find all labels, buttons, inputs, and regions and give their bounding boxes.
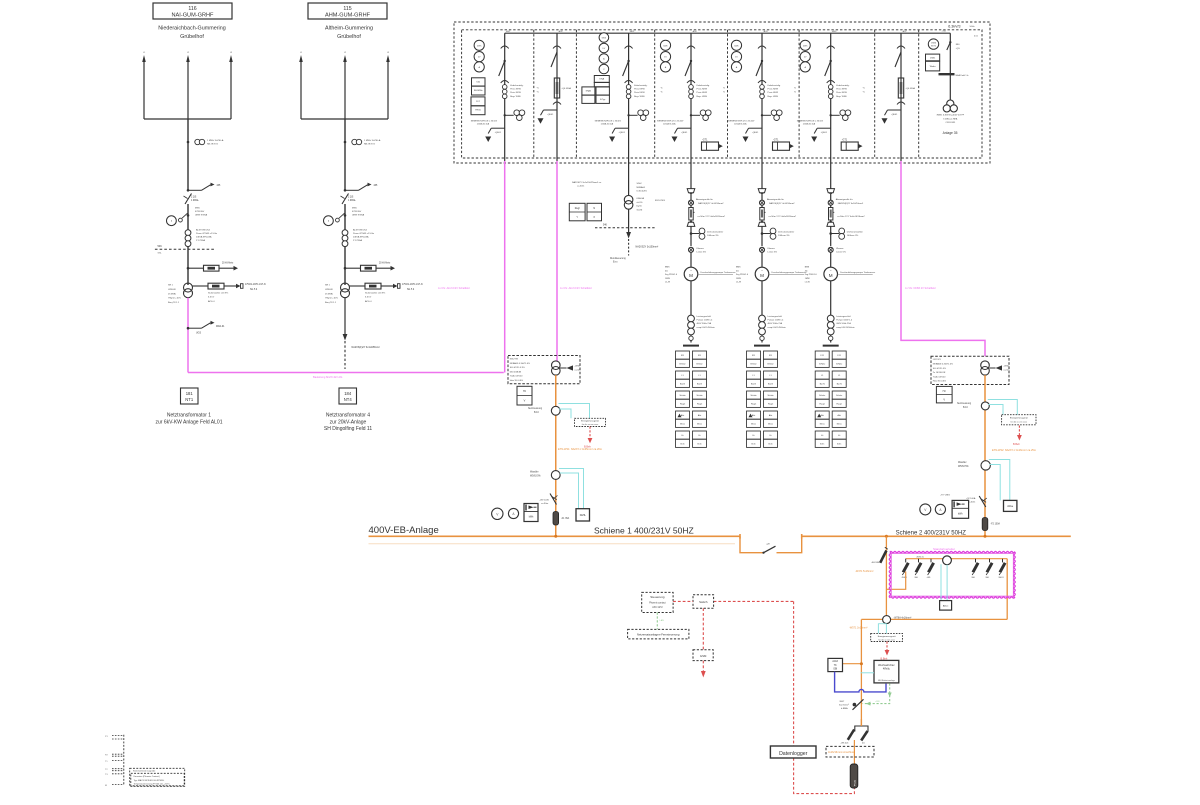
svg-text:APG 4: APG 4 [208, 300, 215, 303]
svg-text:B.rln: B.rln [680, 443, 684, 445]
svg-text:4x16/16mm²-Anschluss: 4x16/16mm²-Anschluss [828, 750, 856, 754]
svg-text:Netztransformator 4: Netztransformator 4 [326, 413, 370, 419]
svg-text:Bayr. WKE: Bayr. WKE [634, 95, 645, 98]
svg-text:W5/63 5%: W5/63 5% [958, 466, 969, 468]
svg-text:TLAL 04%20: TLAL 04%20 [933, 375, 946, 378]
svg-text:Schütz: Schütz [679, 394, 685, 397]
svg-text:Preis KEW: Preis KEW [634, 88, 646, 91]
svg-text:-Q0 630A: -Q0 630A [906, 87, 916, 90]
svg-text:6 kVA aus NEA: 6 kVA aus NEA [943, 117, 958, 120]
svg-text:%: % [537, 88, 539, 90]
svg-text:NKBA05 6.3kV/1.0%: NKBA05 6.3kV/1.0% [510, 362, 530, 365]
svg-text:Bar.N: Bar.N [768, 383, 774, 385]
svg-text:SG 5 b: SG 5 b [407, 289, 415, 291]
svg-text:B.Netz: B.Netz [819, 362, 825, 365]
svg-text:ca.50m YCY 4x6x16/16mm²: ca.50m YCY 4x6x16/16mm² [837, 215, 865, 218]
svg-text:6.3 kV: 6.3 kV [365, 297, 372, 299]
svg-text:Bayr. WKE: Bayr. WKE [836, 95, 847, 98]
svg-text:B.rln: B.rln [820, 443, 824, 445]
svg-text:3WN1 6.3kV/Vn=400V 0.8 PF: 3WN1 6.3kV/Vn=400V 0.8 PF [937, 115, 965, 117]
svg-text:Druckerhöhungspumpe Trinkwasse: Druckerhöhungspumpe Trinkwasser [840, 271, 875, 274]
svg-text:-W2 W1: -W2 W1 [933, 359, 942, 361]
svg-text:TLAL 04%20: TLAL 04%20 [510, 375, 523, 378]
svg-text:400V 50Hz 21A: 400V 50Hz 21A [836, 322, 851, 325]
svg-text:CSV5 B35: CSV5 B35 [945, 122, 956, 124]
svg-text:B.rln: B.rln [751, 443, 755, 445]
svg-text:Alst: Alst [681, 414, 685, 417]
svg-text:SLLM VD 6.3%: SLLM VD 6.3% [510, 367, 525, 369]
svg-text:Mess: Mess [768, 423, 773, 425]
svg-text:Wechselrichter: Wechselrichter [878, 664, 895, 667]
svg-text:NA2XS2Y 3x1x150/25mm² ca.: NA2XS2Y 3x1x150/25mm² ca. [572, 181, 602, 184]
svg-text:-Q2 100A: -Q2 100A [966, 497, 976, 500]
svg-text:P 17/80A: P 17/80A [196, 239, 206, 242]
svg-text:181: 181 [186, 391, 194, 396]
svg-text:1 ZRAL: 1 ZRAL [191, 199, 200, 202]
svg-text:Pmax 472kW ±1.5 Hz: Pmax 472kW ±1.5 Hz [196, 233, 217, 235]
svg-text:Mess: Mess [680, 423, 685, 425]
svg-text:-A06: -A06 [832, 30, 837, 33]
svg-text:%: % [723, 88, 725, 90]
svg-text:-GT1: -GT1 [702, 138, 708, 141]
svg-text:Schütz: Schütz [750, 394, 756, 397]
svg-text:Grübelhof: Grübelhof [337, 34, 361, 40]
svg-text:100kvar 3%: 100kvar 3% [778, 234, 790, 237]
svg-text:-W6 8: -W6 8 [998, 577, 1004, 579]
svg-text:24kVA SF6-63A: 24kVA SF6-63A [196, 236, 212, 239]
svg-text:B.Netz: B.Netz [836, 362, 842, 365]
svg-text:SIEMENS NXPLUS C 36.5kV: SIEMENS NXPLUS C 36.5kV [471, 120, 498, 122]
svg-text:B.10: B.10 [534, 412, 539, 414]
svg-text:Bauleitung 6kV/0.4kV Abt.: Bauleitung 6kV/0.4kV Abt. [313, 375, 343, 379]
svg-text:MAN-01: MAN-01 [216, 325, 225, 328]
svg-text:Stufensteller ±13 9%: Stufensteller ±13 9% [208, 292, 228, 295]
svg-text:Kabelverteilg.: Kabelverteilg. [836, 84, 850, 87]
svg-text:Schütz: Schütz [696, 394, 702, 397]
svg-text:P 17/80A: P 17/80A [353, 239, 363, 242]
svg-text:YRGe: YRGe [475, 110, 482, 112]
svg-text:-A05: -A05 [763, 30, 768, 33]
svg-text:Preis KEW: Preis KEW [836, 91, 848, 94]
svg-text:400V 50Hz 21A: 400V 50Hz 21A [697, 322, 712, 325]
svg-text:630 kVA 4B: 630 kVA 4B [510, 370, 522, 373]
svg-text:Klemm-: Klemm- [768, 248, 776, 250]
svg-text:GSM: GSM [700, 654, 707, 658]
svg-text:L1-W: L1-W [665, 282, 670, 284]
svg-text:1MW: 1MW [736, 278, 741, 280]
svg-text:MSS: MSS [195, 208, 200, 210]
svg-text:Anlage 35: Anlage 35 [943, 131, 958, 135]
svg-text:2x 16/16LVR: 2x 16/16LVR [933, 372, 946, 374]
svg-text:-A01: -A01 [506, 30, 511, 33]
svg-text:Schütz: Schütz [819, 394, 825, 397]
svg-text:M: M [689, 273, 693, 278]
svg-text:Netzersatzanlagen-Fernsteuerun: Netzersatzanlagen-Fernsteuerung [637, 633, 680, 637]
svg-text:Haupt: Haupt [751, 402, 757, 405]
svg-text:Leiste 5%: Leiste 5% [836, 251, 846, 254]
svg-text:Haupt: Haupt [820, 402, 826, 405]
svg-text:%: % [794, 92, 796, 94]
svg-text:-QE01: -QE01 [619, 132, 626, 134]
svg-text:B.Netz: B.Netz [750, 362, 756, 365]
svg-text:Pmax 472kW ±1.5 Hz: Pmax 472kW ±1.5 Hz [353, 233, 374, 235]
svg-text:-W6 1: -W6 1 [901, 577, 907, 579]
svg-text:Regl: Regl [575, 207, 580, 210]
svg-text:FEHL: FEHL [580, 514, 587, 517]
svg-text:1250A 31.5kA: 1250A 31.5kA [734, 123, 747, 126]
svg-text:B.Netz: B.Netz [767, 362, 773, 365]
svg-text:1250A 31.5kA: 1250A 31.5kA [477, 123, 490, 126]
svg-text:1250A 31.5kA: 1250A 31.5kA [601, 123, 614, 126]
svg-text:Drehstromzähler: Drehstromzähler [778, 231, 794, 234]
svg-text:Druckerhöhungspumpe Trinkwasse: Druckerhöhungspumpe Trinkwasser [701, 271, 736, 274]
svg-text:APG 4: APG 4 [365, 300, 372, 303]
svg-text:zu Chr.-Abt.6 F2V Schaltfeld: zu Chr.-Abt.6 F2V Schaltfeld [438, 287, 470, 290]
svg-text:1 MWh 1kV/6h A: 1 MWh 1kV/6h A [364, 139, 381, 142]
svg-text:Energiemessgerät: Energiemessgerät [581, 420, 599, 423]
svg-text:Preis KEW: Preis KEW [768, 88, 780, 91]
svg-text:4m: 4m [862, 743, 865, 745]
svg-text:uk 6%: uk 6% [637, 202, 643, 204]
svg-text:NA2XS(F)2Y 3x1x185mm²: NA2XS(F)2Y 3x1x185mm² [352, 346, 380, 349]
svg-text:-W40: -W40 [1004, 366, 1010, 368]
svg-text:Bar.N: Bar.N [697, 383, 703, 385]
svg-text:ALSTOM DS4: ALSTOM DS4 [196, 229, 211, 232]
svg-text:~: ~ [830, 269, 832, 273]
svg-text:Alst: Alst [752, 414, 756, 417]
svg-text:B.rln: B.rln [697, 443, 701, 445]
svg-text:NA2XS(F)2Y 4x16/16mm²: NA2XS(F)2Y 4x16/16mm² [838, 202, 864, 205]
svg-text:~: ~ [690, 269, 692, 273]
svg-text:2 QS: 2 QS [191, 197, 197, 199]
svg-text:Typ: MACX MCR-EX-SL-RPSSI-I: Typ: MACX MCR-EX-SL-RPSSI-I [134, 779, 165, 782]
svg-text:-W2 4x35: -W2 4x35 [540, 500, 550, 502]
svg-text:%: % [863, 88, 865, 90]
svg-text:SLLM VD 4%: SLLM VD 4% [933, 368, 946, 370]
svg-text:Dyn5: Dyn5 [637, 206, 643, 208]
svg-text:NB 29.9 kV: NB 29.9 kV [364, 144, 376, 146]
svg-text:-W471 5x16mm²: -W471 5x16mm² [855, 570, 874, 573]
svg-text:LRWLR: LRWLR [325, 289, 333, 291]
svg-text:Alst: Alst [769, 414, 773, 417]
svg-text:-GT1: -GT1 [773, 138, 779, 141]
svg-text:NT4: NT4 [344, 397, 353, 402]
svg-text:Rundsteuerung: Rundsteuerung [610, 257, 626, 260]
svg-text:Klemm-: Klemm- [697, 248, 705, 250]
svg-text:NB 29.9 kV: NB 29.9 kV [207, 144, 219, 146]
svg-text:-QE01: -QE01 [547, 114, 554, 116]
svg-text:Netzmessung: Netzmessung [957, 402, 972, 405]
svg-text:Switch: Switch [699, 600, 708, 604]
svg-text:MSS: MSS [352, 208, 357, 210]
svg-text:Preis KEW: Preis KEW [634, 91, 646, 94]
svg-text:-F2 100A: -F2 100A [991, 523, 1001, 526]
svg-text:UEW 9 MVA: UEW 9 MVA [195, 214, 208, 217]
svg-text:B.Netz: B.Netz [696, 362, 702, 365]
svg-text:Haupt: Haupt [697, 402, 703, 405]
svg-text:NA2XS2Y 3x150mm²: NA2XS2Y 3x150mm² [636, 246, 659, 249]
svg-text:SIEMENS NXPLUS C 36.5kV: SIEMENS NXPLUS C 36.5kV [657, 120, 684, 122]
svg-text:3x2.5mm²: 3x2.5mm² [839, 704, 849, 707]
svg-text:-W76 4x: -W76 4x [916, 556, 925, 558]
svg-text:LAN: LAN [660, 619, 665, 622]
svg-text:Wandler: Wandler [530, 471, 539, 474]
svg-text:PV-An: PV-An [854, 779, 857, 786]
svg-text:TK: TK [834, 665, 837, 667]
svg-text:Abzweigmuffe für: Abzweigmuffe für [767, 198, 784, 201]
svg-text:B.Beh: B.Beh [1013, 443, 1020, 446]
svg-text:50Hz: 50Hz [970, 26, 975, 28]
svg-text:Ablse: Ablse [1007, 505, 1014, 508]
svg-text:Klemmenleiste Legende: Klemmenleiste Legende [133, 770, 156, 773]
svg-text:Energiemessgerät: Energiemessgerät [878, 635, 896, 638]
svg-text:Pumpe 11kW 1.4: Pumpe 11kW 1.4 [697, 320, 714, 322]
svg-text:cosφ 0.84 1450/min: cosφ 0.84 1450/min [836, 327, 855, 329]
svg-text:N: N [593, 207, 595, 210]
svg-text:SIEMENS NXPLUS C 36.5kV: SIEMENS NXPLUS C 36.5kV [728, 120, 755, 122]
svg-text:%: % [661, 92, 663, 94]
svg-text:Schütz: Schütz [767, 394, 773, 397]
svg-text:-A03: -A03 [630, 30, 635, 33]
svg-text:Haupt: Haupt [768, 402, 774, 405]
svg-text:Preis KEW: Preis KEW [510, 88, 522, 91]
svg-text:RH162Ba: RH162Ba [474, 90, 484, 92]
svg-text:116: 116 [188, 6, 196, 12]
svg-text:KBL/TW: KBL/TW [510, 359, 519, 361]
svg-text:Bar.N: Bar.N [837, 383, 843, 385]
svg-text:Mess: Mess [697, 423, 702, 425]
svg-text:LRWLR: LRWLR [168, 289, 176, 291]
svg-text:175/21-1970-1/17-N: 175/21-1970-1/17-N [245, 284, 266, 286]
svg-text:B.rln: B.rln [837, 443, 841, 445]
svg-text:B.rln: B.rln [768, 443, 772, 445]
svg-text:-T77 28kV: -T77 28kV [940, 495, 951, 497]
svg-text:20 kV-Netz: 20 kV-Netz [222, 262, 234, 265]
svg-text:-QE01: -QE01 [495, 132, 502, 134]
svg-text:%: % [723, 92, 725, 94]
svg-text:L1-W: L1-W [736, 282, 741, 284]
svg-text:1250A 31.5kA: 1250A 31.5kA [663, 123, 676, 126]
svg-text:Bar.N: Bar.N [680, 383, 686, 385]
svg-text:Leistungsschild: Leistungsschild [836, 315, 851, 318]
svg-text:Schiene 1 400/231V 50HZ: Schiene 1 400/231V 50HZ [594, 526, 694, 536]
svg-text:Fzg PRG/1.6: Fzg PRG/1.6 [736, 274, 749, 276]
svg-text:Wofra: Wofra [930, 65, 937, 68]
svg-text:GBI: GBI [833, 668, 837, 670]
svg-text:-A04: -A04 [692, 30, 697, 33]
svg-text:48Vdc: 48Vdc [883, 668, 891, 671]
svg-text:Wandler: Wandler [958, 461, 967, 464]
svg-text:M: M [105, 785, 107, 787]
svg-text:ca.50m YCY 4x6x16/16mm²: ca.50m YCY 4x6x16/16mm² [769, 215, 797, 218]
svg-text:+28V: +28V [875, 701, 880, 703]
svg-text:Netztransformator 1: Netztransformator 1 [167, 413, 211, 419]
svg-text:Kabelverteilg.: Kabelverteilg. [768, 84, 782, 87]
svg-text:1MW: 1MW [805, 278, 810, 280]
svg-text:Kabelverteilg.: Kabelverteilg. [510, 84, 524, 87]
svg-text:Alst: Alst [838, 414, 842, 417]
svg-text:Preis KEW: Preis KEW [836, 88, 848, 91]
svg-text:ca.5m: ca.5m [1004, 370, 1010, 372]
svg-text:YNyn0 +10%: YNyn0 +10% [325, 298, 338, 300]
svg-text:B.Typ: B.Typ [600, 99, 606, 101]
svg-text:KNA5: KNA5 [586, 90, 592, 93]
svg-text:b.BMA: b.BMA [841, 707, 848, 710]
svg-text:cosφ 0.84 1450/min: cosφ 0.84 1450/min [697, 327, 716, 329]
svg-text:Mess: Mess [820, 423, 825, 425]
svg-text:-GT1: -GT1 [842, 138, 848, 141]
svg-text:zur 20kV-Anlage: zur 20kV-Anlage [330, 419, 367, 425]
svg-text:-Q0 630A: -Q0 630A [562, 87, 572, 90]
svg-text:Haupt: Haupt [680, 402, 686, 405]
svg-text:Alst: Alst [821, 414, 825, 417]
svg-text:Kabelverteilg.: Kabelverteilg. [634, 84, 648, 87]
svg-text:400V-EB-Anlage: 400V-EB-Anlage [369, 525, 439, 536]
svg-text:Drehstromzähler: Drehstromzähler [707, 231, 723, 234]
svg-text:M: M [760, 273, 764, 278]
svg-text:-QE01: -QE01 [681, 132, 688, 134]
svg-text:Haupt: Haupt [837, 402, 843, 405]
svg-text:-QS: -QS [956, 48, 960, 50]
svg-text:Grübelhof: Grübelhof [180, 34, 204, 40]
svg-text:L1-W: L1-W [805, 282, 810, 284]
svg-text:Bayr. WKE: Bayr. WKE [510, 95, 521, 98]
svg-text:-QE01: -QE01 [891, 114, 898, 116]
svg-text:Heiz.W 0.4kV: Heiz.W 0.4kV [933, 381, 947, 383]
svg-text:zur 6kV-KW Anlage Feld AL01: zur 6kV-KW Anlage Feld AL01 [156, 419, 223, 425]
svg-text:-QE01: -QE01 [752, 132, 759, 134]
svg-text:NEA Feld 1 b: NEA Feld 1 b [956, 74, 970, 77]
svg-text:6.3kV/3: 6.3kV/3 [948, 25, 960, 29]
svg-text:NKBA04: NKBA04 [637, 186, 646, 189]
svg-text:BMS: BMS [736, 267, 741, 269]
svg-text:~: ~ [761, 269, 763, 273]
svg-text:ALSTOM DS4: ALSTOM DS4 [353, 229, 368, 232]
svg-text:Bayr. WKE: Bayr. WKE [768, 95, 779, 98]
svg-text:YNyn0 +10%: YNyn0 +10% [168, 298, 181, 300]
svg-text:B3 1670/5: B3 1670/5 [655, 200, 666, 202]
svg-text:Pumpe 11kW 1.4: Pumpe 11kW 1.4 [768, 320, 785, 322]
svg-text:Kabelverteilg.: Kabelverteilg. [697, 84, 711, 87]
svg-text:KNA: KNA [600, 77, 605, 80]
svg-text:Fzg PRG/1.6: Fzg PRG/1.6 [665, 274, 678, 276]
svg-text:Preis KEW: Preis KEW [697, 91, 709, 94]
svg-text:Mess: Mess [837, 423, 842, 425]
svg-text:48V-Batterieanlage: 48V-Batterieanlage [878, 679, 896, 682]
svg-text:6/7/8.9kV: 6/7/8.9kV [195, 211, 205, 213]
svg-text:Leiste 5%: Leiste 5% [768, 251, 778, 254]
svg-text:M: M [829, 273, 833, 278]
svg-text:UGS: UGS [196, 333, 201, 335]
svg-text:6.3/0.42kV: 6.3/0.42kV [637, 191, 648, 193]
svg-text:115: 115 [343, 6, 351, 12]
svg-text:Preis KEW: Preis KEW [768, 91, 780, 94]
svg-text:-W76A 4x16mm²: -W76A 4x16mm² [894, 616, 912, 619]
svg-text:20 kV-Netz: 20 kV-Netz [379, 262, 391, 265]
svg-text:ca.50m: ca.50m [577, 186, 584, 188]
svg-text:UEW 9 MVA: UEW 9 MVA [352, 214, 365, 217]
svg-text:25 MVA: 25 MVA [168, 292, 176, 295]
svg-text:Drehstromzähler: Drehstromzähler [847, 231, 863, 234]
svg-text:184: 184 [344, 391, 352, 396]
svg-text:Pumpe 11kW 1.4: Pumpe 11kW 1.4 [836, 320, 853, 322]
svg-text:Abzweigmuffe für: Abzweigmuffe für [696, 198, 713, 201]
svg-text:Preis KEW: Preis KEW [697, 88, 709, 91]
svg-text:2 QS: 2 QS [348, 197, 354, 199]
svg-text:zu Vbr. NKB3 2V Schaltfeld: zu Vbr. NKB3 2V Schaltfeld [905, 287, 936, 290]
svg-text:-A07: -A07 [902, 30, 907, 33]
svg-text:Netzmessung: Netzmessung [528, 407, 543, 410]
svg-text:Ablse: Ablse [943, 605, 949, 608]
svg-text:SIEMENS NXPLUS C 36.5kV: SIEMENS NXPLUS C 36.5kV [797, 120, 824, 122]
svg-text:Fzg PRG/1.6: Fzg PRG/1.6 [805, 274, 818, 276]
svg-text:NAI-GUM-GRHF: NAI-GUM-GRHF [172, 13, 215, 19]
svg-text:Bauj.78 1.1: Bauj.78 1.1 [168, 302, 180, 304]
svg-text:546: 546 [158, 245, 163, 248]
svg-text:NT1: NT1 [185, 397, 194, 402]
svg-text:ETN-W31: NA2XY-J 4x35mm² ca.20: ETN-W31: NA2XY-J 4x35mm² ca.20m [558, 447, 602, 451]
svg-text:AJAX: AJAX [832, 660, 838, 663]
svg-text:SLLM: SLLM [637, 209, 643, 211]
svg-text:Preis KEW: Preis KEW [510, 91, 522, 94]
svg-text:Leistungsschild: Leistungsschild [697, 315, 712, 318]
svg-text:1 MWh 1kV/6h A: 1 MWh 1kV/6h A [207, 139, 224, 142]
svg-text:%: % [661, 88, 663, 90]
svg-text:1SB1: 1SB1 [930, 57, 936, 59]
svg-text:-W30: -W30 [575, 366, 581, 368]
svg-text:Klemm-: Klemm- [836, 248, 844, 250]
svg-text:ETN-W32: NA2XY-J 4x16mm² ca.25: ETN-W32: NA2XY-J 4x16mm² ca.25m [992, 448, 1036, 452]
svg-text:175/21-1970-1/17-N: 175/21-1970-1/17-N [402, 284, 423, 286]
svg-text:Datenlogger: Datenlogger [779, 751, 808, 757]
svg-text:SH Dingolfing Feld 11: SH Dingolfing Feld 11 [324, 426, 372, 432]
svg-text:Druckerhöhungspumpe Trinkwasse: Druckerhöhungspumpe Trinkwasser [772, 271, 807, 274]
svg-text:Niederaichbach-Gummering: Niederaichbach-Gummering [158, 26, 225, 32]
svg-text:ca.30m: ca.30m [541, 503, 548, 505]
svg-text:-QE01: -QE01 [821, 132, 828, 134]
svg-text:ca.50m YCY 4x6x16/16mm²: ca.50m YCY 4x6x16/16mm² [698, 215, 726, 218]
svg-text:%: % [794, 88, 796, 90]
svg-text:-F1 35A: -F1 35A [561, 517, 570, 520]
svg-text:Phoenix contact: Phoenix contact [649, 601, 666, 604]
svg-text:Stufensteller ±13 9%: Stufensteller ±13 9% [365, 292, 385, 295]
svg-text:cosφ 0.84 1450/min: cosφ 0.84 1450/min [768, 327, 787, 329]
svg-text:NA2XS(F)2Y 4x16/16mm²: NA2XS(F)2Y 4x16/16mm² [769, 202, 795, 205]
svg-text:6/7/8.9kV: 6/7/8.9kV [352, 211, 362, 213]
svg-text:400V 50Hz 21A: 400V 50Hz 21A [768, 322, 783, 325]
svg-text:für die xx von xxxx: für die xx von xxxx [582, 424, 598, 426]
svg-text:kWh: kWh [529, 516, 534, 518]
svg-text:100kvar 3%: 100kvar 3% [707, 234, 719, 237]
svg-text:BMS: BMS [805, 267, 810, 269]
svg-text:25 MVA: 25 MVA [325, 292, 333, 295]
svg-text:Heiz.W 0.4kV: Heiz.W 0.4kV [510, 380, 524, 382]
svg-text:S2b2: S2b2 [637, 183, 643, 185]
svg-text:Bayr. WKE: Bayr. WKE [697, 95, 708, 98]
svg-text:100kvar 3%: 100kvar 3% [847, 234, 859, 237]
svg-text:-W571 3x16mm²: -W571 3x16mm² [849, 627, 868, 630]
svg-text:%: % [863, 92, 865, 94]
svg-text:NOT5: NOT5 [931, 46, 937, 48]
svg-text:Leistungsschild: Leistungsschild [768, 315, 783, 318]
svg-text:Steuerung: Steuerung [650, 595, 665, 599]
svg-text:zu Chr.-Abt.6 F2V Schaltfeld: zu Chr.-Abt.6 F2V Schaltfeld [560, 287, 592, 290]
svg-text:Schütz: Schütz [836, 394, 842, 397]
svg-text:SR 1: SR 1 [325, 285, 331, 287]
svg-text:SR 1: SR 1 [168, 285, 174, 287]
svg-text:AHM-GUM-GRHF: AHM-GUM-GRHF [325, 13, 371, 19]
svg-text:-W57: -W57 [839, 701, 845, 703]
